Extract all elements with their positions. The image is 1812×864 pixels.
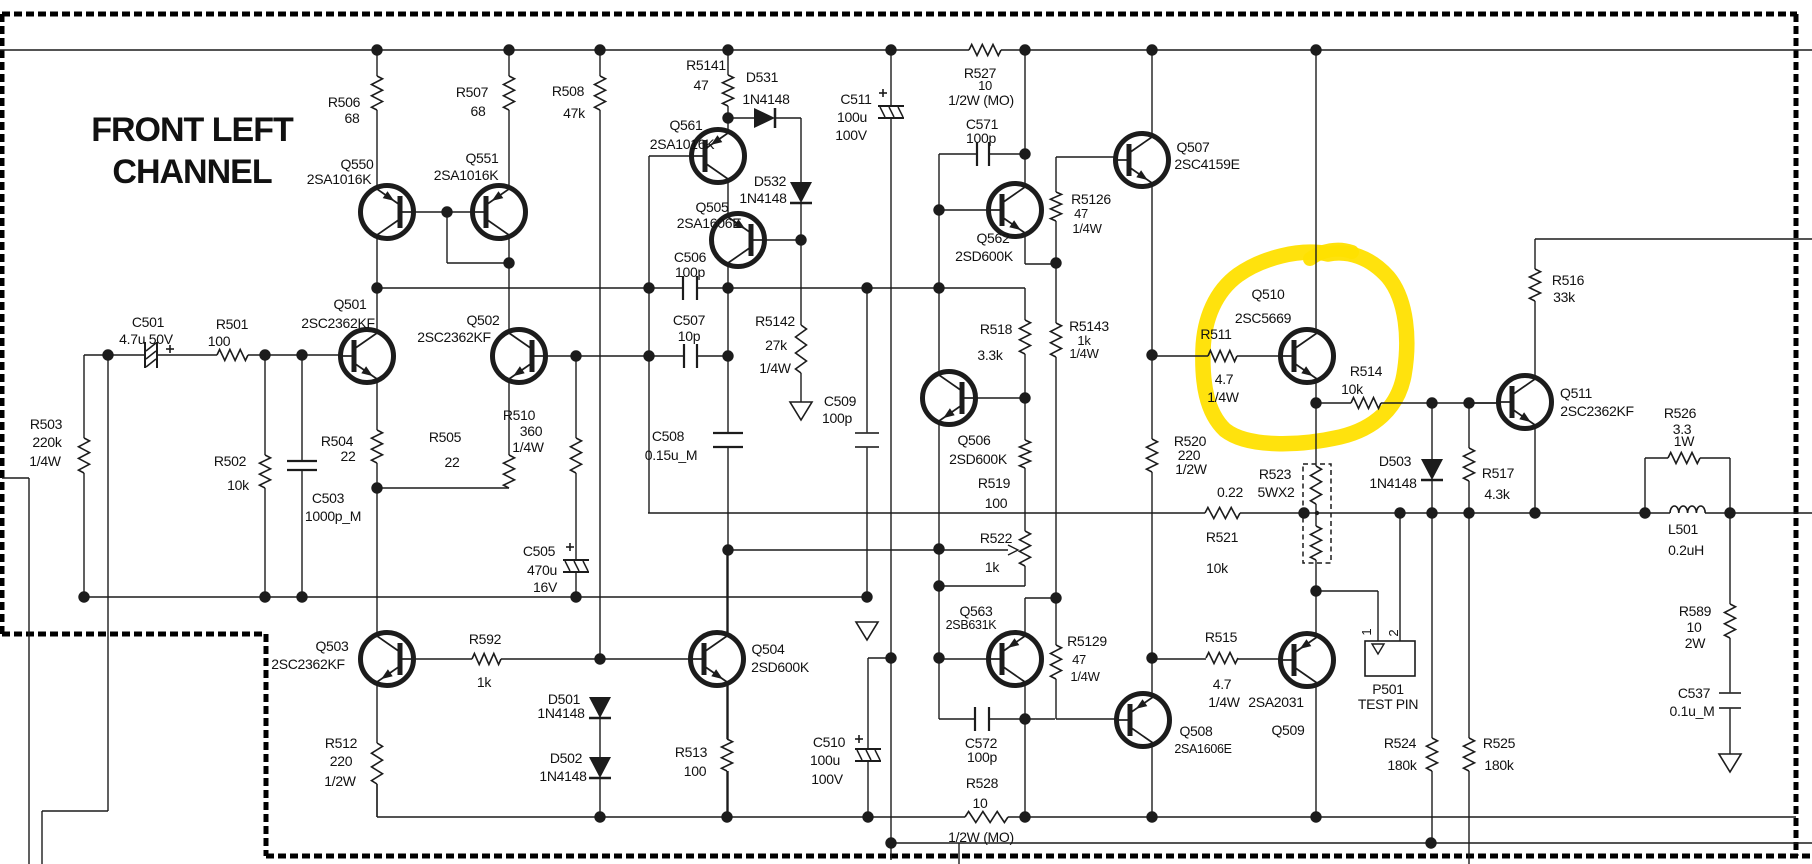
title FRONT LEFT CHANNEL [91,111,294,191]
svg-text:D531: D531 [746,69,779,85]
svg-text:100p: 100p [675,264,705,280]
wire C571 to R518 column top [1024,50,1026,154]
svg-text:10k: 10k [1341,381,1364,397]
svg-text:3.3k: 3.3k [977,347,1004,363]
label C506 [674,249,707,280]
svg-text:100V: 100V [835,127,867,143]
wire Q502 base to R510 node [545,355,684,357]
wire R503 bottom [83,473,85,597]
svg-text:R5129: R5129 [1067,633,1107,649]
junction dot Q562 base [933,204,944,215]
svg-text:1/4W: 1/4W [1070,669,1100,684]
wire R516 top feed [1535,238,1812,240]
wire C503 branch [301,355,303,461]
svg-text:10k: 10k [1206,560,1229,576]
wire R524 column [1431,513,1433,738]
wire C509 column [866,288,868,433]
diode D502 [589,757,611,778]
label Q506 [949,432,1008,467]
wire D532 column to R5142 [800,118,802,182]
label R504 [321,433,356,464]
resistor R527 [969,45,1001,56]
junction dots mid rail [78,591,872,602]
svg-text:R5143: R5143 [1069,318,1109,334]
capacitor C508 [713,433,743,447]
resistor R592 [472,654,501,665]
wire Q507 column [1151,50,1153,134]
label L501 [1668,521,1704,558]
wire input line [84,354,145,356]
resistor R5141 [723,75,734,106]
capacitor C507 [684,344,697,368]
svg-text:C506: C506 [674,249,707,265]
svg-text:2SA1606E: 2SA1606E [1174,742,1231,756]
wire R511 to Q510 base [1237,355,1281,357]
svg-text:33k: 33k [1553,289,1576,305]
svg-text:R507: R507 [456,84,489,100]
svg-text:1/2W (MO): 1/2W (MO) [948,92,1014,108]
junction dot wiper left [722,544,733,555]
label R528 [948,775,1014,845]
svg-text:R5126: R5126 [1071,191,1111,207]
capacitor C537 [1719,693,1741,708]
label R516 [1552,272,1585,305]
svg-text:Q562: Q562 [976,230,1010,246]
svg-text:100p: 100p [966,130,996,146]
label R525 [1483,735,1516,773]
wire output line [648,512,1205,514]
svg-text:Q503: Q503 [315,638,349,654]
label Q563 [946,603,998,632]
wire Q504 collector [726,550,728,632]
label Q507 [1174,139,1239,172]
svg-text:Q506: Q506 [957,432,991,448]
svg-text:2SD600K: 2SD600K [955,248,1014,264]
wire Q563 base [939,658,989,660]
svg-text:C501: C501 [132,314,165,330]
svg-text:R525: R525 [1483,735,1516,751]
resistor R502 [260,455,271,488]
resistor R526 [1668,453,1700,464]
plus sign C510 [855,735,863,743]
capacitor C572 [975,707,989,731]
label C501 [119,314,174,347]
transistor Q506 [923,372,976,425]
wire base tie down to Q551 collector [446,212,448,263]
wire top supply rail [0,49,969,51]
capacitor C505 [563,560,589,572]
junction dots y288 node [371,282,944,293]
svg-text:C507: C507 [673,312,706,328]
label Q503 [271,638,349,672]
svg-text:1W: 1W [1674,433,1695,449]
label R5143 [1069,318,1109,361]
svg-text:R528: R528 [966,775,999,791]
svg-text:100: 100 [985,495,1008,511]
svg-text:47k: 47k [563,105,586,121]
wire R522 bottom tie [939,585,1025,587]
transistor Q510 [1281,330,1334,383]
junction dot base tie [441,206,452,217]
small dot R523 center [1315,511,1319,515]
diode D501 [589,697,611,718]
svg-text:Q509: Q509 [1271,722,1305,738]
wire bottom rail [377,816,965,818]
dashed border notch horizontal [2,632,266,637]
junction dots bottom rail [594,811,1321,822]
wire R515 line to Q509 base [1153,658,1206,660]
junction dot R5141/D531 [722,112,733,123]
svg-text:100u: 100u [810,752,840,768]
resistor R501 [217,350,248,361]
svg-text:1/2W (MO): 1/2W (MO) [948,829,1014,845]
svg-text:R526: R526 [1664,405,1697,421]
svg-text:22: 22 [445,454,460,470]
svg-text:1/4W: 1/4W [1072,221,1102,236]
diode D532 [790,182,812,203]
svg-text:Q561: Q561 [669,117,703,133]
svg-text:2SC2362KF: 2SC2362KF [1560,403,1634,419]
svg-text:2SA1016K: 2SA1016K [650,136,716,152]
svg-text:R519: R519 [978,475,1011,491]
diode D503 [1421,459,1443,480]
wire R525 column [1468,513,1470,738]
label R506 [328,94,361,126]
transistor Q504 [691,633,744,686]
label Q508 [1174,723,1231,756]
junction dot R524 bottom [1425,837,1436,848]
wire Q506 column [938,210,940,372]
svg-text:Q508: Q508 [1179,723,1213,739]
wire R507 column / Q551 / Q502 column [508,50,510,76]
svg-text:10k: 10k [227,477,250,493]
svg-text:R513: R513 [675,744,708,760]
wire Q561 base branch [649,155,692,157]
svg-text:D503: D503 [1379,453,1412,469]
wire R517 column [1468,403,1470,448]
svg-text:1/4W: 1/4W [1208,694,1241,710]
dashed border top [2,12,1797,17]
wire D531 link [728,117,754,119]
resistor R505 [504,455,515,488]
connector P501 test pin [1365,641,1415,676]
svg-text:R521: R521 [1206,529,1239,545]
label R592 [469,631,502,690]
svg-text:1N4148: 1N4148 [1369,475,1417,491]
svg-text:R511: R511 [1200,326,1232,342]
dashed border left [0,14,5,634]
svg-text:4.3k: 4.3k [1484,486,1511,502]
svg-text:100V: 100V [811,771,843,787]
resistor R508 [595,76,606,110]
junction dot vbe node [1050,592,1061,603]
label D501 [537,691,585,721]
svg-text:R515: R515 [1205,629,1238,645]
svg-text:100: 100 [684,763,707,779]
transistor Q507 [1116,134,1169,187]
svg-text:R5142: R5142 [755,313,795,329]
transistor Q551 [473,186,526,239]
svg-text:10p: 10p [678,328,701,344]
wire R518 R519 R522 column [1024,288,1026,320]
svg-text:FRONT LEFT: FRONT LEFT [91,111,294,149]
label R520 [1174,433,1208,477]
junction dots input node y355 [102,349,733,361]
svg-text:27k: 27k [765,337,788,353]
wire Q563 top to vbe node [1024,598,1026,633]
svg-text:C510: C510 [813,734,846,750]
resistor R5126 [1051,192,1062,221]
svg-text:TEST PIN: TEST PIN [1358,696,1418,712]
svg-text:R592: R592 [469,631,502,647]
junction dot Q551 collector [503,257,514,268]
svg-text:R524: R524 [1384,735,1417,751]
svg-text:R5141: R5141 [686,57,726,73]
label C537 [1670,685,1715,719]
svg-text:Q505: Q505 [695,199,729,215]
label C508 [645,428,697,463]
wire R5126 bottom to R5143 [1055,221,1057,263]
svg-text:Q502: Q502 [466,312,500,328]
svg-text:C537: C537 [1678,685,1711,701]
svg-text:C509: C509 [824,393,857,409]
transistor Q509 [1281,634,1334,687]
label C511 [835,91,872,143]
resistor R516 [1530,269,1541,301]
dashed border right [1794,14,1799,856]
svg-text:180k: 180k [1387,757,1417,773]
svg-text:C505: C505 [523,543,556,559]
wire main node y355 right [1152,355,1208,357]
label D531 [742,69,790,107]
junction dot C510 tap [885,652,896,663]
label R517 [1482,465,1515,502]
svg-text:1/4W: 1/4W [512,439,545,455]
resistor R5142 [796,325,807,373]
svg-text:D532: D532 [754,173,787,189]
capacitor C511 [878,106,904,118]
svg-text:2SC5669: 2SC5669 [1235,310,1292,326]
junction dots R514 line [1310,397,1474,408]
resistor R503 [79,438,90,473]
svg-text:10: 10 [1687,619,1702,635]
svg-text:Q550: Q550 [340,156,374,172]
diode D531 [754,108,775,128]
junction dot R520 top [1146,349,1157,360]
svg-text:R518: R518 [980,321,1013,337]
wire Q510 collector column [1315,50,1317,330]
wire R5141 / Q561 / Q505 / C508 column [727,50,729,75]
label R512 [324,735,357,789]
label R524 [1384,735,1418,773]
label R522 [980,530,1013,575]
junction dot C572 right [1019,713,1030,724]
wire Q503 R592 line [413,658,472,660]
svg-text:CHANNEL: CHANNEL [112,153,271,191]
svg-text:L501: L501 [1668,521,1698,537]
wire Q508 pins column [1151,658,1153,694]
wire R5143 bottom to vbe node [1055,357,1057,598]
label P501 [1358,681,1418,712]
wire C572 branch [938,658,940,719]
svg-text:R506: R506 [328,94,361,110]
svg-text:0.1u_M: 0.1u_M [1670,703,1715,719]
label R501 [208,316,249,349]
label C505 [523,543,558,595]
svg-text:1000p_M: 1000p_M [305,508,361,524]
junction dot C511 bottom line [885,837,896,848]
label R514 [1341,363,1382,397]
label Q509 [1271,722,1305,738]
wire D503 column [1431,403,1433,459]
wire R526 bypass [1645,457,1668,459]
svg-text:4.7: 4.7 [1213,676,1232,692]
junction dot R504 bottom [371,482,382,493]
svg-text:47: 47 [1072,652,1086,667]
transistor Q503 [361,633,414,686]
resistor R519 [1020,440,1031,468]
svg-text:R523: R523 [1259,466,1292,482]
transistor Q508 [1117,694,1170,747]
svg-text:2SC4159E: 2SC4159E [1174,156,1239,172]
wire R514 line [1316,402,1351,404]
svg-text:360: 360 [520,423,543,439]
transistor Q501 [341,330,394,383]
svg-text:100: 100 [208,333,231,349]
svg-text:2: 2 [1386,629,1401,636]
junction dot C571 right [1019,148,1030,159]
resistor R523 (0.22 5W x2) upper [1311,466,1322,504]
resistor R525 [1464,738,1475,771]
junction dot R592 right [594,653,605,664]
wire Q562 base stub [939,209,989,211]
svg-text:47: 47 [1074,206,1088,221]
wire R506 column / Q550 / Q501 column [376,50,378,76]
wire Q507 base to R5126 [1056,156,1116,158]
svg-text:1N4148: 1N4148 [539,768,587,784]
wire Q511 emitter to output [1534,428,1536,513]
wire R522 wiper [728,549,1008,551]
wire R516 to Q511 collector [1534,301,1536,376]
wire Q511 base stub [1469,402,1499,404]
svg-text:Q563: Q563 [959,603,993,619]
wire R510 / C505 column [575,356,577,438]
svg-text:R589: R589 [1679,603,1712,619]
svg-text:1/4W: 1/4W [29,453,62,469]
svg-text:5WX2: 5WX2 [1258,484,1295,500]
wire R504 R505 emitter bus [377,487,509,489]
svg-text:R510: R510 [503,407,536,423]
svg-text:2SD600K: 2SD600K [949,451,1008,467]
svg-text:C503: C503 [312,490,345,506]
plus sign C511 [879,89,887,97]
svg-text:Q511: Q511 [1560,385,1593,401]
wire C537 to ground [1729,708,1731,754]
junction dot Q506 base [1019,392,1030,403]
label Q505 [677,199,742,231]
capacitor C510 [855,749,881,761]
svg-text:1: 1 [1359,628,1374,635]
svg-text:R514: R514 [1350,363,1383,379]
wire R523 column [1315,403,1317,466]
label R503 [29,416,63,469]
label D502 [539,750,587,784]
label D503 [1369,453,1417,491]
svg-text:1/2W: 1/2W [1175,461,1208,477]
resistor R513 [722,739,733,771]
svg-text:0.15u_M: 0.15u_M [645,447,697,463]
wire R5129 to Q508 base [1055,679,1057,719]
svg-text:Q501: Q501 [333,296,367,312]
inductor L501 [1670,506,1705,513]
label C572 [965,735,998,765]
wire Q505 base [764,239,801,241]
resistor R521 [1205,508,1240,519]
wire C510 branch [868,657,891,659]
wire Q509 pins column [1315,591,1317,634]
wire Q550-Q551 base tie [411,211,473,213]
label R518 [977,321,1012,363]
svg-text:R501: R501 [216,316,249,332]
label Q501 [301,296,375,331]
label Q511 [1560,385,1634,419]
wire Q562 emitter to R5126 [1024,233,1026,264]
wire mid ground rail [84,596,867,598]
svg-text:Q504: Q504 [751,641,785,657]
wire R512 bottom corner [376,784,378,817]
label C510 [810,734,846,787]
svg-text:Q510: Q510 [1251,286,1285,302]
svg-text:4.7u 50V: 4.7u 50V [119,331,174,347]
resistor R515 [1206,653,1238,664]
svg-text:16V: 16V [533,579,558,595]
transistor Q563 [989,633,1042,686]
label R505 [429,429,462,470]
ground symbol mid rail [856,622,878,640]
svg-text:2SA1606E: 2SA1606E [677,215,742,231]
capacitor C501 [145,342,157,368]
junction dot Q509 collector / P501 [1310,585,1321,596]
wire second bottom line [891,842,1812,844]
label C503 [305,490,361,524]
resistor R507 [504,76,515,110]
label R510 [503,407,545,455]
wire Q563 emitter column [1024,685,1026,719]
svg-text:47: 47 [694,77,709,93]
label Q510 [1235,286,1292,326]
svg-text:100p: 100p [822,410,852,426]
svg-text:180k: 180k [1484,757,1514,773]
label D532 [739,173,787,206]
svg-text:2SA1016K: 2SA1016K [307,171,373,187]
resistor R511 [1208,351,1237,362]
resistor R528 [965,812,1008,823]
transistor Q502 [493,330,546,383]
resistor R5129 [1051,645,1062,679]
plus sign C501 [166,345,174,353]
svg-text:1N4148: 1N4148 [537,705,585,721]
label C571 [966,116,999,146]
resistor R510 [571,438,582,473]
svg-text:0.2uH: 0.2uH [1668,542,1704,558]
label R513 [675,744,708,779]
svg-text:2SA2031: 2SA2031 [1248,694,1304,710]
resistor R512 [372,743,383,784]
label R523 [1217,466,1295,500]
resistor R517 [1464,448,1475,481]
wire Q506 base [975,397,1024,399]
resistor R506 [372,76,383,110]
